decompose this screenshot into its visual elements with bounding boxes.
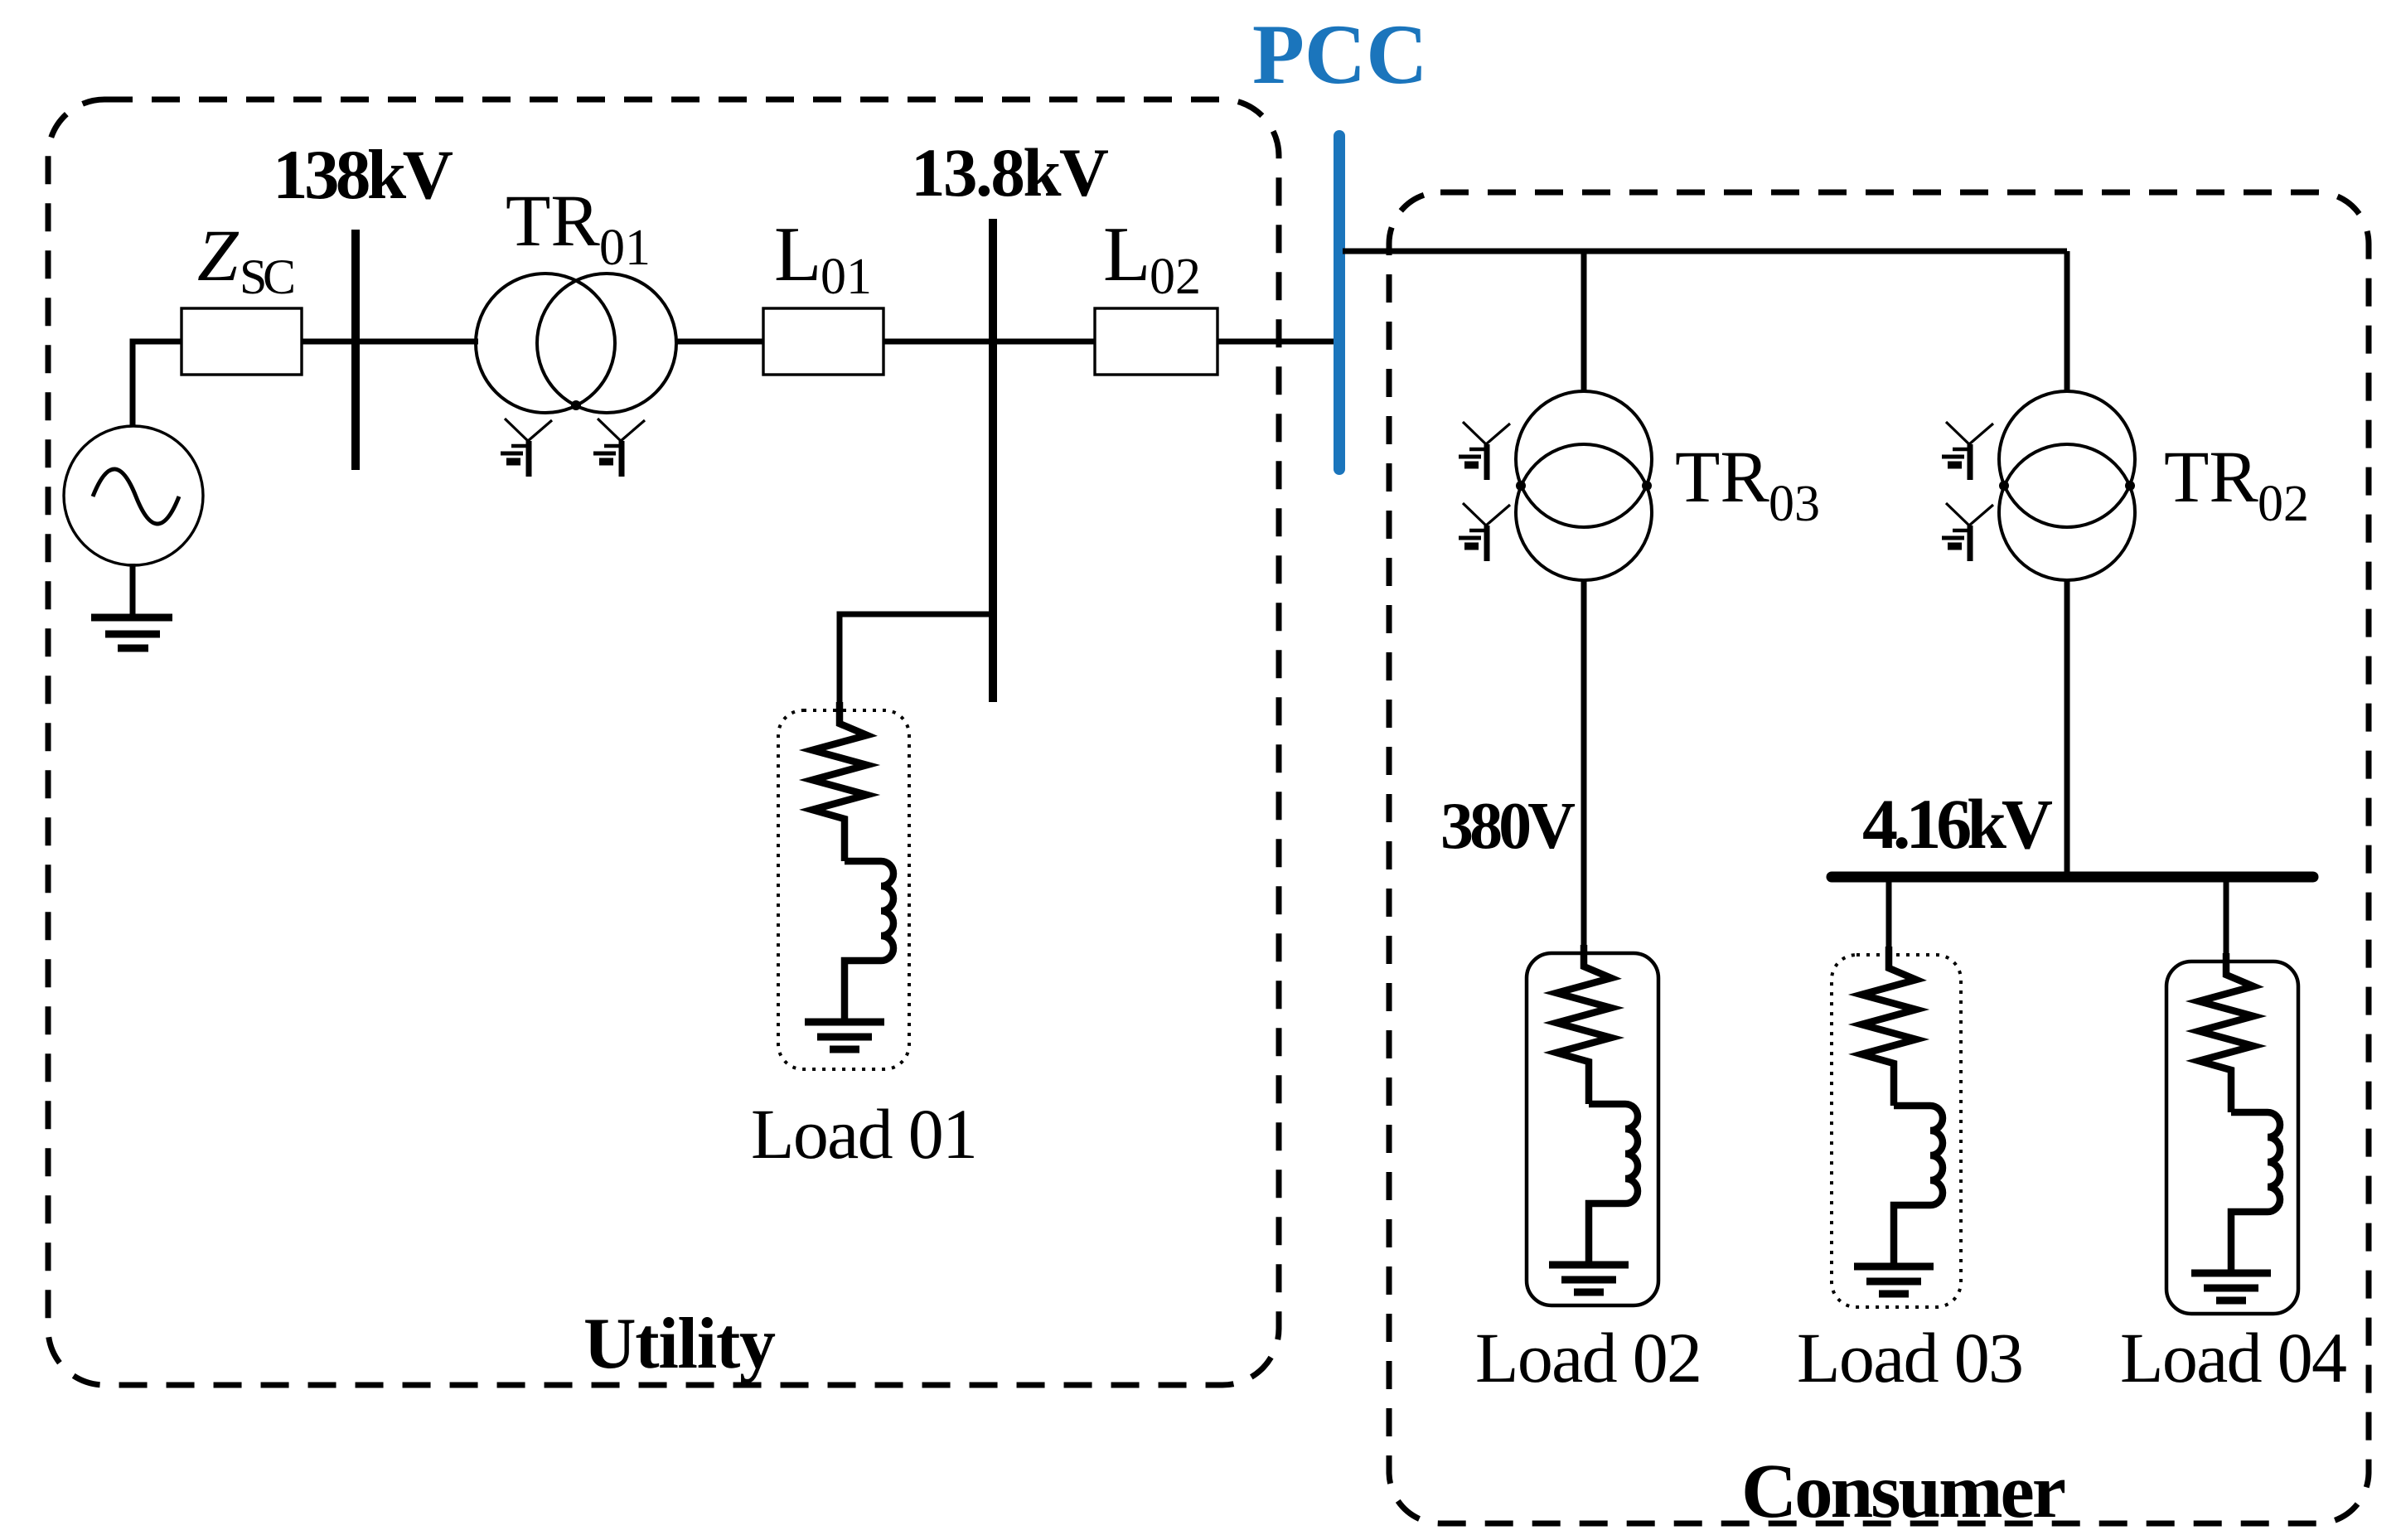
svg-text:01: 01 — [821, 249, 872, 305]
load 01 box (dotted) — [778, 710, 909, 1069]
svg-text:PCC: PCC — [1252, 7, 1428, 102]
svg-text:02: 02 — [2258, 476, 2309, 532]
svg-text:Z: Z — [197, 216, 240, 297]
svg-text:01: 01 — [599, 220, 651, 276]
svg-text:Load 03: Load 03 — [1797, 1318, 2024, 1397]
load 02 box — [1527, 953, 1658, 1305]
transformer TR03 — [1516, 391, 1652, 580]
reactor L01 (box) — [763, 308, 883, 375]
transformer TR02 — [1999, 391, 2135, 580]
label Zsc — [197, 216, 296, 304]
wire TR03 to Load 02 — [1581, 580, 1587, 954]
TR03 winding ground (lower) — [1459, 503, 1510, 561]
svg-text:TR: TR — [2164, 437, 2258, 518]
load 04 box — [2166, 961, 2298, 1314]
branch wire 13.8kV bus to Load 01 — [840, 614, 993, 711]
label L02 — [1103, 211, 1201, 305]
ground (source) — [91, 617, 172, 648]
wire bus to Load 03 — [1886, 879, 1892, 956]
wire Zsc to TR01 — [302, 339, 478, 345]
TR02 winding ground (lower) — [1942, 503, 1993, 561]
TR02 winding ground (upper) — [1942, 422, 1993, 480]
svg-text:SC: SC — [240, 249, 296, 304]
wire TR01 to L01 — [676, 339, 763, 345]
load 03 box (dotted) — [1832, 955, 1961, 1307]
wire PCC to consumer branches — [1343, 249, 2067, 254]
svg-text:L: L — [774, 211, 821, 298]
svg-text:13.8kV: 13.8kV — [911, 134, 1109, 211]
bus PCC (blue) — [1334, 136, 1345, 469]
wire bus to Load 04 — [2224, 879, 2229, 963]
AC source G1 — [64, 426, 203, 565]
load 04 R-L-ground — [2191, 953, 2280, 1300]
wire source to ground — [130, 564, 136, 614]
TR01 winding ground (left) — [501, 419, 552, 477]
svg-text:380V: 380V — [1440, 790, 1576, 863]
reactor L02 (box) — [1095, 308, 1217, 375]
wire L02 to PCC — [1217, 339, 1335, 345]
wire source to Zsc — [133, 341, 182, 427]
TR03 winding ground (upper) — [1459, 422, 1510, 480]
transformer TR01 — [476, 274, 676, 413]
svg-text:138kV: 138kV — [273, 136, 453, 214]
svg-text:Utility: Utility — [583, 1304, 776, 1384]
label TR03 — [1675, 437, 1820, 532]
wire TR02 to 4.16kV bus — [2065, 580, 2070, 879]
label TR02 — [2164, 437, 2309, 532]
load 03 R-L-ground — [1854, 947, 1943, 1294]
bus 138kV — [351, 230, 360, 470]
Consumer region dashed border — [1389, 192, 2369, 1523]
svg-text:Load 04: Load 04 — [2120, 1318, 2347, 1397]
svg-text:Consumer: Consumer — [1741, 1449, 2066, 1534]
svg-text:Load 02: Load 02 — [1475, 1318, 1702, 1397]
impedance Zsc (box) — [182, 308, 302, 375]
bus 4.16kV — [1832, 872, 2313, 883]
svg-text:4.16kV: 4.16kV — [1862, 784, 2053, 864]
svg-text:03: 03 — [1769, 476, 1820, 532]
wire drop to TR02 — [2065, 251, 2070, 393]
svg-text:TR: TR — [506, 181, 600, 262]
label TR01 — [506, 181, 651, 276]
Utility region dashed border — [48, 99, 1279, 1385]
svg-text:TR: TR — [1675, 437, 1769, 518]
bus 13.8kV — [989, 219, 997, 702]
TR01 winding ground (right) — [593, 419, 645, 477]
svg-text:L: L — [1103, 211, 1150, 298]
svg-text:02: 02 — [1150, 249, 1201, 305]
label L01 — [774, 211, 872, 305]
svg-text:Load 01: Load 01 — [751, 1094, 978, 1174]
wire drop to TR03 — [1581, 251, 1587, 393]
load 02 R-L-ground — [1549, 945, 1638, 1292]
load 01 R-L-ground — [805, 702, 893, 1049]
wire L01 to L02 — [883, 339, 1095, 345]
